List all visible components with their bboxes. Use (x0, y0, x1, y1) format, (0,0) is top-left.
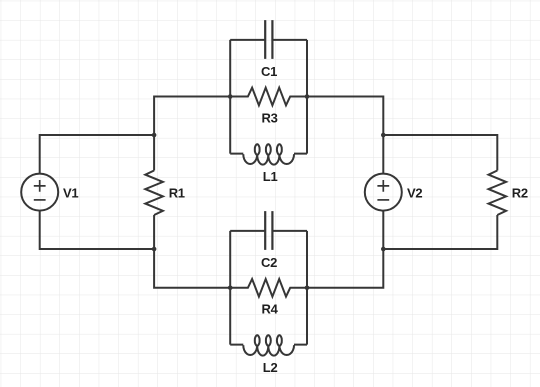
node bottom block right (305, 286, 310, 291)
wire bottom block left vertical (229, 231, 231, 345)
svg-text:R3: R3 (262, 111, 278, 126)
resistor R4 (230, 279, 307, 297)
node V2 bottom junction (381, 247, 386, 252)
capacitor C2 (230, 211, 307, 250)
wire V2 bottom to bottom block (307, 249, 383, 288)
inductor L2 (230, 335, 307, 355)
node top block left (228, 94, 233, 99)
wire R2 bottom to V2 (383, 215, 497, 249)
resistor R2 (489, 171, 507, 216)
svg-text:L1: L1 (263, 169, 278, 184)
svg-text:C2: C2 (261, 255, 277, 270)
capacitor C1 (230, 20, 307, 59)
voltage source V2 (365, 174, 402, 211)
svg-text:V2: V2 (407, 186, 422, 201)
wire top block right vertical (306, 40, 308, 154)
wire V2 bottom circle to junction (382, 211, 384, 249)
wire top block to V2 (307, 97, 383, 136)
node bottom block left (228, 286, 233, 291)
svg-text:L2: L2 (263, 360, 278, 375)
node top block right (305, 94, 310, 99)
wire left rail down to bottom block (154, 215, 230, 288)
wire V1 top to left rail (40, 135, 154, 174)
svg-text:R4: R4 (262, 302, 279, 317)
svg-text:V1: V1 (63, 186, 78, 201)
svg-text:C1: C1 (261, 64, 277, 79)
node left-bottom junction (152, 247, 157, 252)
resistor R3 (230, 88, 307, 106)
wire left rail up to top block (154, 97, 230, 171)
wire V2 top junction to circle (382, 135, 384, 174)
voltage source V1 (21, 174, 58, 211)
node left-top junction (152, 133, 157, 138)
resistor R1 (145, 171, 163, 216)
svg-text:R1: R1 (169, 186, 185, 201)
inductor L1 (230, 144, 307, 164)
svg-text:R2: R2 (512, 186, 528, 201)
wire V1 bottom to left rail (40, 211, 154, 249)
node V2 top junction (381, 133, 386, 138)
wire top block left vertical (229, 40, 231, 154)
wire V2 top to R2 (383, 135, 497, 171)
wire bottom block right vertical (306, 231, 308, 345)
